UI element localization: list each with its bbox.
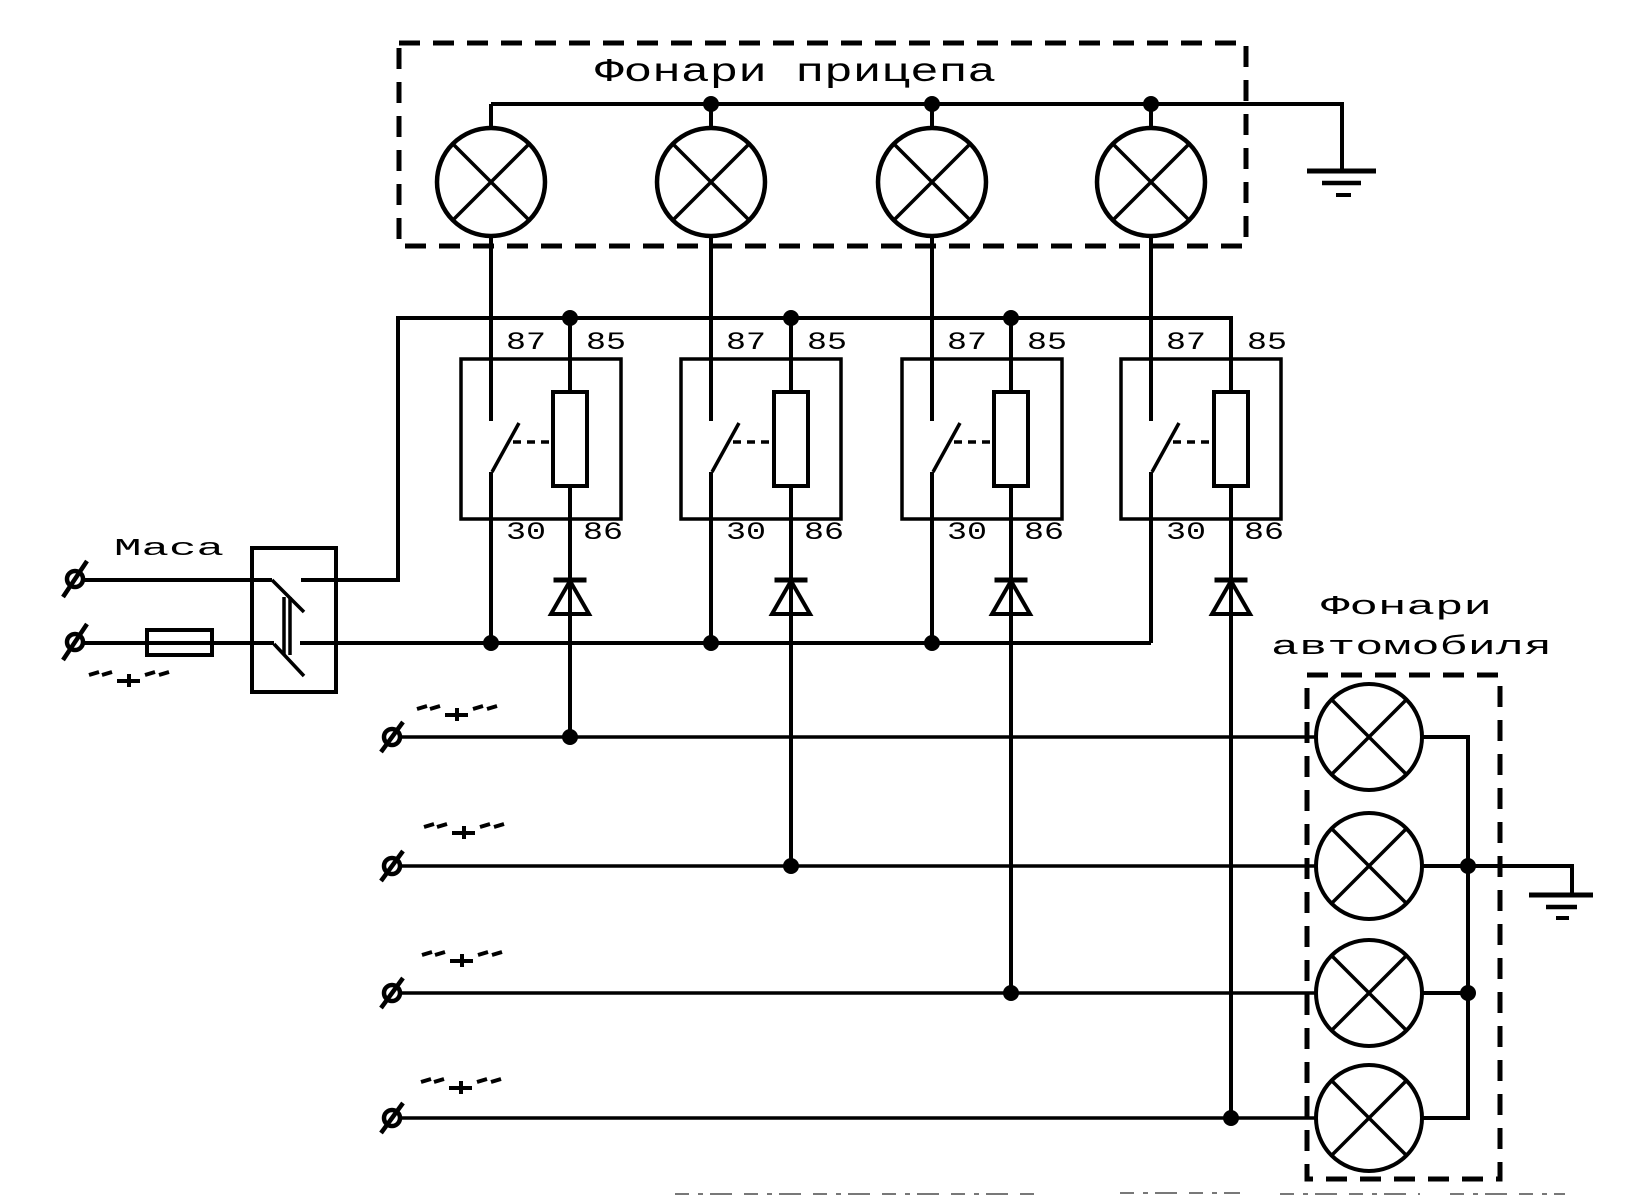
- junction: +12V bus: [924, 635, 940, 651]
- wire: 85 bus to K1 coil: [568, 318, 572, 392]
- wire: HL2 to relay K2 pin 87: [709, 236, 713, 421]
- svg-text:85: 85: [1247, 328, 1287, 357]
- wire: K1 pin 30 to +12V bus: [489, 472, 493, 643]
- actuation link (K4): [1173, 440, 1214, 444]
- lamp HL6 (car): [1316, 813, 1422, 919]
- terminal: +12V input 1: [381, 722, 403, 752]
- lamp HL1 (trailer): [437, 104, 545, 236]
- junction: row 3 / VD3: [1003, 985, 1019, 1001]
- wire: input row 2 to car lamp HL6: [400, 864, 1316, 868]
- lamp HL2 (trailer): [657, 104, 765, 236]
- svg-text:85: 85: [586, 328, 626, 357]
- actuation link (K2): [733, 440, 774, 444]
- wire: K4 pin 30 to +12V bus: [1149, 472, 1153, 643]
- svg-text:85: 85: [807, 328, 847, 357]
- enclosure: car lamps dashed box: [1307, 675, 1500, 1179]
- relay K1: [461, 328, 626, 547]
- ground: car side: [1529, 895, 1593, 918]
- diode VD1: [551, 580, 589, 614]
- label: "+" (main): [89, 672, 169, 687]
- relay K4 body: [1121, 359, 1281, 519]
- terminal: Маса: [63, 561, 87, 597]
- label: "+" (input 4): [421, 1079, 501, 1094]
- relay K3 body: [902, 359, 1062, 519]
- svg-text:30: 30: [947, 518, 987, 547]
- junction: 85 bus: [562, 310, 578, 326]
- wire: K1 coil to diode VD1: [568, 486, 572, 580]
- wire: diode VD2 to input row 2: [789, 580, 793, 866]
- junction: car bus / lamp 2: [1460, 858, 1476, 874]
- svg-text:87: 87: [726, 328, 766, 357]
- wire: diode VD1 to input row 1: [568, 580, 572, 737]
- svg-text:86: 86: [1244, 518, 1284, 547]
- wire: input row 3 to car lamp HL7: [400, 991, 1316, 995]
- junction: 85 bus: [1003, 310, 1019, 326]
- wire: switch to relay 85 bus (feeds K4 coil): [301, 318, 1231, 580]
- relay K1 body: [461, 359, 621, 519]
- wire: input row 4 to car lamp HL8: [400, 1116, 1316, 1120]
- junction: top bus: [1143, 96, 1159, 112]
- lamp HL3 (trailer): [878, 104, 986, 236]
- junction: row 2 / VD2: [783, 858, 799, 874]
- fuse FU1: [147, 630, 212, 655]
- switch arm (K2): [712, 423, 739, 472]
- wire: K2 pin 30 to +12V bus: [709, 472, 713, 643]
- switch arm (K3): [933, 423, 960, 472]
- svg-text:87: 87: [1166, 328, 1206, 357]
- svg-text:30: 30: [506, 518, 546, 547]
- coil (K3): [994, 392, 1028, 486]
- junction: +12V bus: [703, 635, 719, 651]
- relay K4: [1121, 328, 1287, 547]
- relay K2: [681, 328, 847, 547]
- coil (K2): [774, 392, 808, 486]
- wire: 85 bus to K2 coil: [789, 318, 793, 392]
- svg-text:87: 87: [947, 328, 987, 357]
- enclosure: trailer lamps dashed box: [399, 43, 1246, 246]
- svg-text:87: 87: [506, 328, 546, 357]
- wire: car bus to car ground: [1468, 866, 1572, 895]
- relay K2 body: [681, 359, 841, 519]
- wire: K2 coil to diode VD2: [789, 486, 793, 580]
- diode VD2: [772, 580, 810, 614]
- actuation link (K1): [513, 440, 553, 444]
- actuation link (K3): [954, 440, 994, 444]
- svg-text:Фонари прицепа: Фонари прицепа: [595, 54, 996, 91]
- wire: +12V terminal through fuse to switch SA1: [83, 641, 274, 645]
- wire: K4 coil to diode VD4: [1229, 486, 1233, 580]
- lamp HL4 (trailer): [1097, 104, 1205, 236]
- lamp HL8 (car): [1316, 1065, 1422, 1171]
- junction: +12V bus: [483, 635, 499, 651]
- lamp HL7 (car): [1316, 940, 1422, 1046]
- svg-text:30: 30: [1166, 518, 1206, 547]
- terminal: +12V main: [63, 624, 87, 660]
- switch arm (K1): [492, 423, 519, 472]
- terminal: +12V input 4: [381, 1103, 403, 1133]
- relay K3: [902, 328, 1067, 547]
- wire: +12V bus (pin 30 common): [300, 641, 1151, 645]
- label: "+" (input 2): [424, 824, 504, 839]
- wire: K3 coil to diode VD3: [1009, 486, 1013, 580]
- switch arm (K4): [1152, 423, 1179, 472]
- wire: car lamp common bus: [1422, 737, 1468, 1118]
- svg-text:86: 86: [1024, 518, 1064, 547]
- wire: top bus to trailer ground: [491, 104, 1342, 171]
- svg-text:86: 86: [583, 518, 623, 547]
- label: "+" (input 1): [417, 706, 497, 721]
- lamp HL5 (car): [1316, 684, 1422, 790]
- wire: K3 pin 30 to +12V bus: [930, 472, 934, 643]
- diode VD3: [992, 580, 1030, 614]
- junction: car bus / lamp 3: [1460, 985, 1476, 1001]
- svg-text:85: 85: [1027, 328, 1067, 357]
- svg-text:86: 86: [804, 518, 844, 547]
- junction: 85 bus: [783, 310, 799, 326]
- wire: HL4 to relay K4 pin 87: [1149, 236, 1153, 421]
- svg-text:автомобиля: автомобиля: [1271, 633, 1552, 663]
- wire: input row 1 to car lamp HL5: [400, 735, 1316, 739]
- wire: HL3 to relay K3 pin 87: [930, 236, 934, 421]
- label: "+" (input 3): [422, 952, 502, 967]
- wire: 85 bus to K3 coil: [1009, 318, 1013, 392]
- svg-text:30: 30: [726, 518, 766, 547]
- wire: HL1 to relay K1 pin 87: [489, 236, 493, 421]
- junction: row 1 / VD1: [562, 729, 578, 745]
- terminal: +12V input 2: [381, 851, 403, 881]
- junction: row 4 / VD4: [1223, 1110, 1239, 1126]
- diode VD4: [1212, 580, 1250, 614]
- wire: diode VD3 to input row 3: [1009, 580, 1013, 993]
- wire: diode VD4 to input row 4: [1229, 580, 1233, 1118]
- terminal: +12V input 3: [381, 978, 403, 1008]
- coil (K4): [1214, 392, 1248, 486]
- ground: trailer side: [1307, 171, 1376, 195]
- svg-text:Маса: Маса: [114, 536, 224, 563]
- junction: top bus: [924, 96, 940, 112]
- coil (K1): [553, 392, 587, 486]
- junction: top bus: [703, 96, 719, 112]
- wire: Маса terminal to switch SA1: [83, 578, 272, 582]
- switch SA1 (ganged double pole): [252, 548, 336, 692]
- svg-text:Фонари: Фонари: [1321, 593, 1492, 623]
